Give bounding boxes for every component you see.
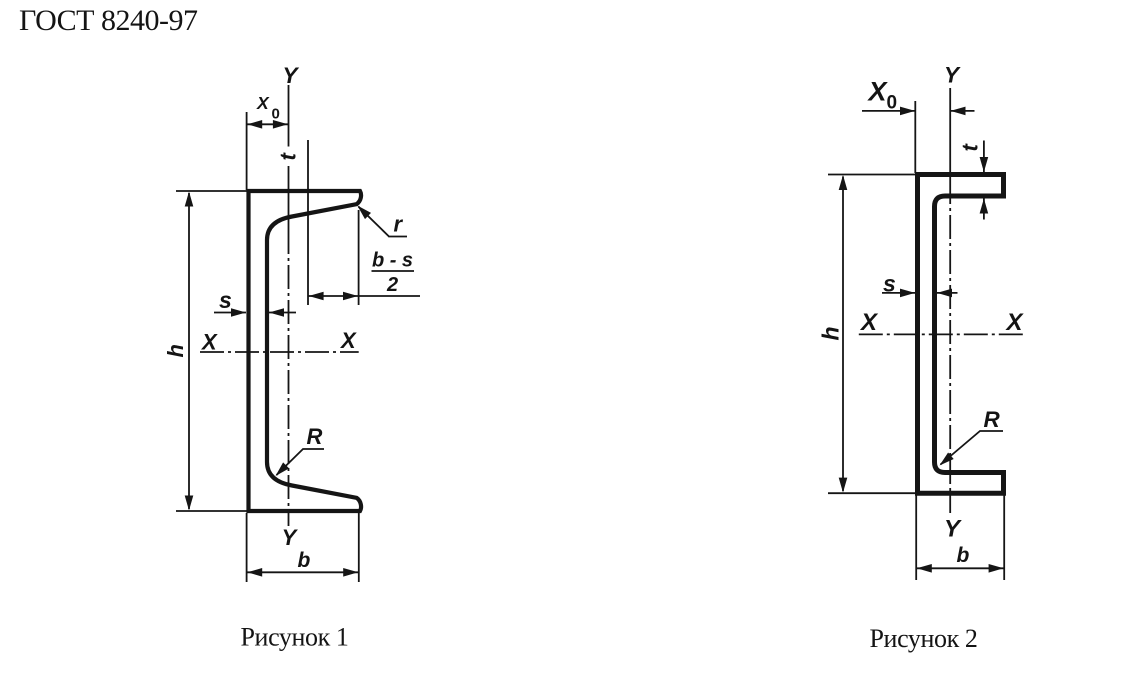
dimension h line (fig 1) [188, 193, 190, 509]
svg-text:Рисунок 1: Рисунок 1 [241, 623, 349, 652]
svg-text:b - s: b - s [372, 250, 413, 272]
dimension s arrows (fig 2) [882, 292, 915, 294]
channel section outline (Figure 1, sloped flanges) [249, 191, 362, 511]
svg-text:r: r [394, 212, 404, 237]
svg-text:Y: Y [944, 516, 962, 543]
svg-text:0: 0 [887, 93, 898, 114]
svg-text:2: 2 [386, 274, 398, 296]
svg-text:X: X [1005, 309, 1025, 336]
extension line left face for X0 (fig 1) [246, 112, 248, 190]
svg-text:X: X [200, 330, 218, 355]
svg-text:s: s [219, 287, 232, 313]
svg-text:X: X [339, 328, 357, 353]
extension line bottom-left for h (fig 2) [828, 492, 915, 494]
svg-text:R: R [307, 424, 323, 449]
svg-text:0: 0 [272, 106, 280, 123]
svg-text:X: X [867, 77, 889, 107]
extension line right for b (fig 1) [358, 513, 360, 582]
svg-text:R: R [984, 407, 1001, 432]
svg-text:h: h [163, 344, 188, 357]
dimension b line with arrows (fig 1) [247, 571, 359, 573]
svg-text:X: X [256, 93, 270, 113]
Y axis upper segment (fig 1) [288, 85, 290, 147]
axis X-X chain line (fig 1) [200, 351, 359, 353]
svg-text:b: b [957, 544, 970, 567]
dimension X0 with outside arrows (fig 2) [862, 110, 915, 112]
extension line bottom-left for h (fig 1) [176, 510, 247, 512]
extension line top-left for h (fig 2) [828, 174, 915, 176]
svg-text:Y: Y [282, 63, 299, 88]
svg-text:Рисунок 2: Рисунок 2 [870, 624, 978, 653]
leader r with arrow (fig 1) [359, 207, 408, 237]
svg-text:ГОСТ 8240-97: ГОСТ 8240-97 [19, 4, 198, 37]
extension line left for b (fig 1) [246, 513, 248, 582]
svg-text:Y: Y [282, 525, 299, 550]
extension line left face for X0 (fig 2) [914, 101, 916, 173]
dimension h line (fig 2) [842, 177, 844, 492]
t measurement extension line (fig 1) [307, 140, 309, 305]
dimension b line with arrows (fig 2) [916, 567, 1004, 569]
svg-text:h: h [818, 326, 844, 340]
dimension X0 line with arrows (fig 1) [247, 123, 289, 125]
leader R with arrow (fig 2) [941, 431, 1004, 465]
extension line top-left for h (fig 1) [176, 190, 247, 192]
dimension s arrows (fig 1) [214, 312, 246, 314]
Y axis centre chain line (fig 1) [288, 166, 290, 230]
leader R with arrow (fig 1) [277, 449, 325, 475]
Y axis chain line (fig 2) [949, 88, 951, 180]
toe extension line (fig 1) [358, 210, 360, 305]
extension line left for b (fig 2) [915, 495, 917, 580]
svg-text:Y: Y [944, 63, 961, 88]
dimension (b-s)/2 line with arrows (fig 1) [308, 295, 420, 297]
channel section outline (Figure 2, parallel flanges) [918, 175, 1004, 494]
svg-text:X: X [859, 309, 879, 336]
axis X-X chain line (fig 2) [859, 333, 1025, 335]
dimension t with outside arrows (fig 2) [983, 141, 985, 173]
extension line right for b (fig 2) [1003, 495, 1005, 580]
svg-text:b: b [298, 549, 311, 572]
